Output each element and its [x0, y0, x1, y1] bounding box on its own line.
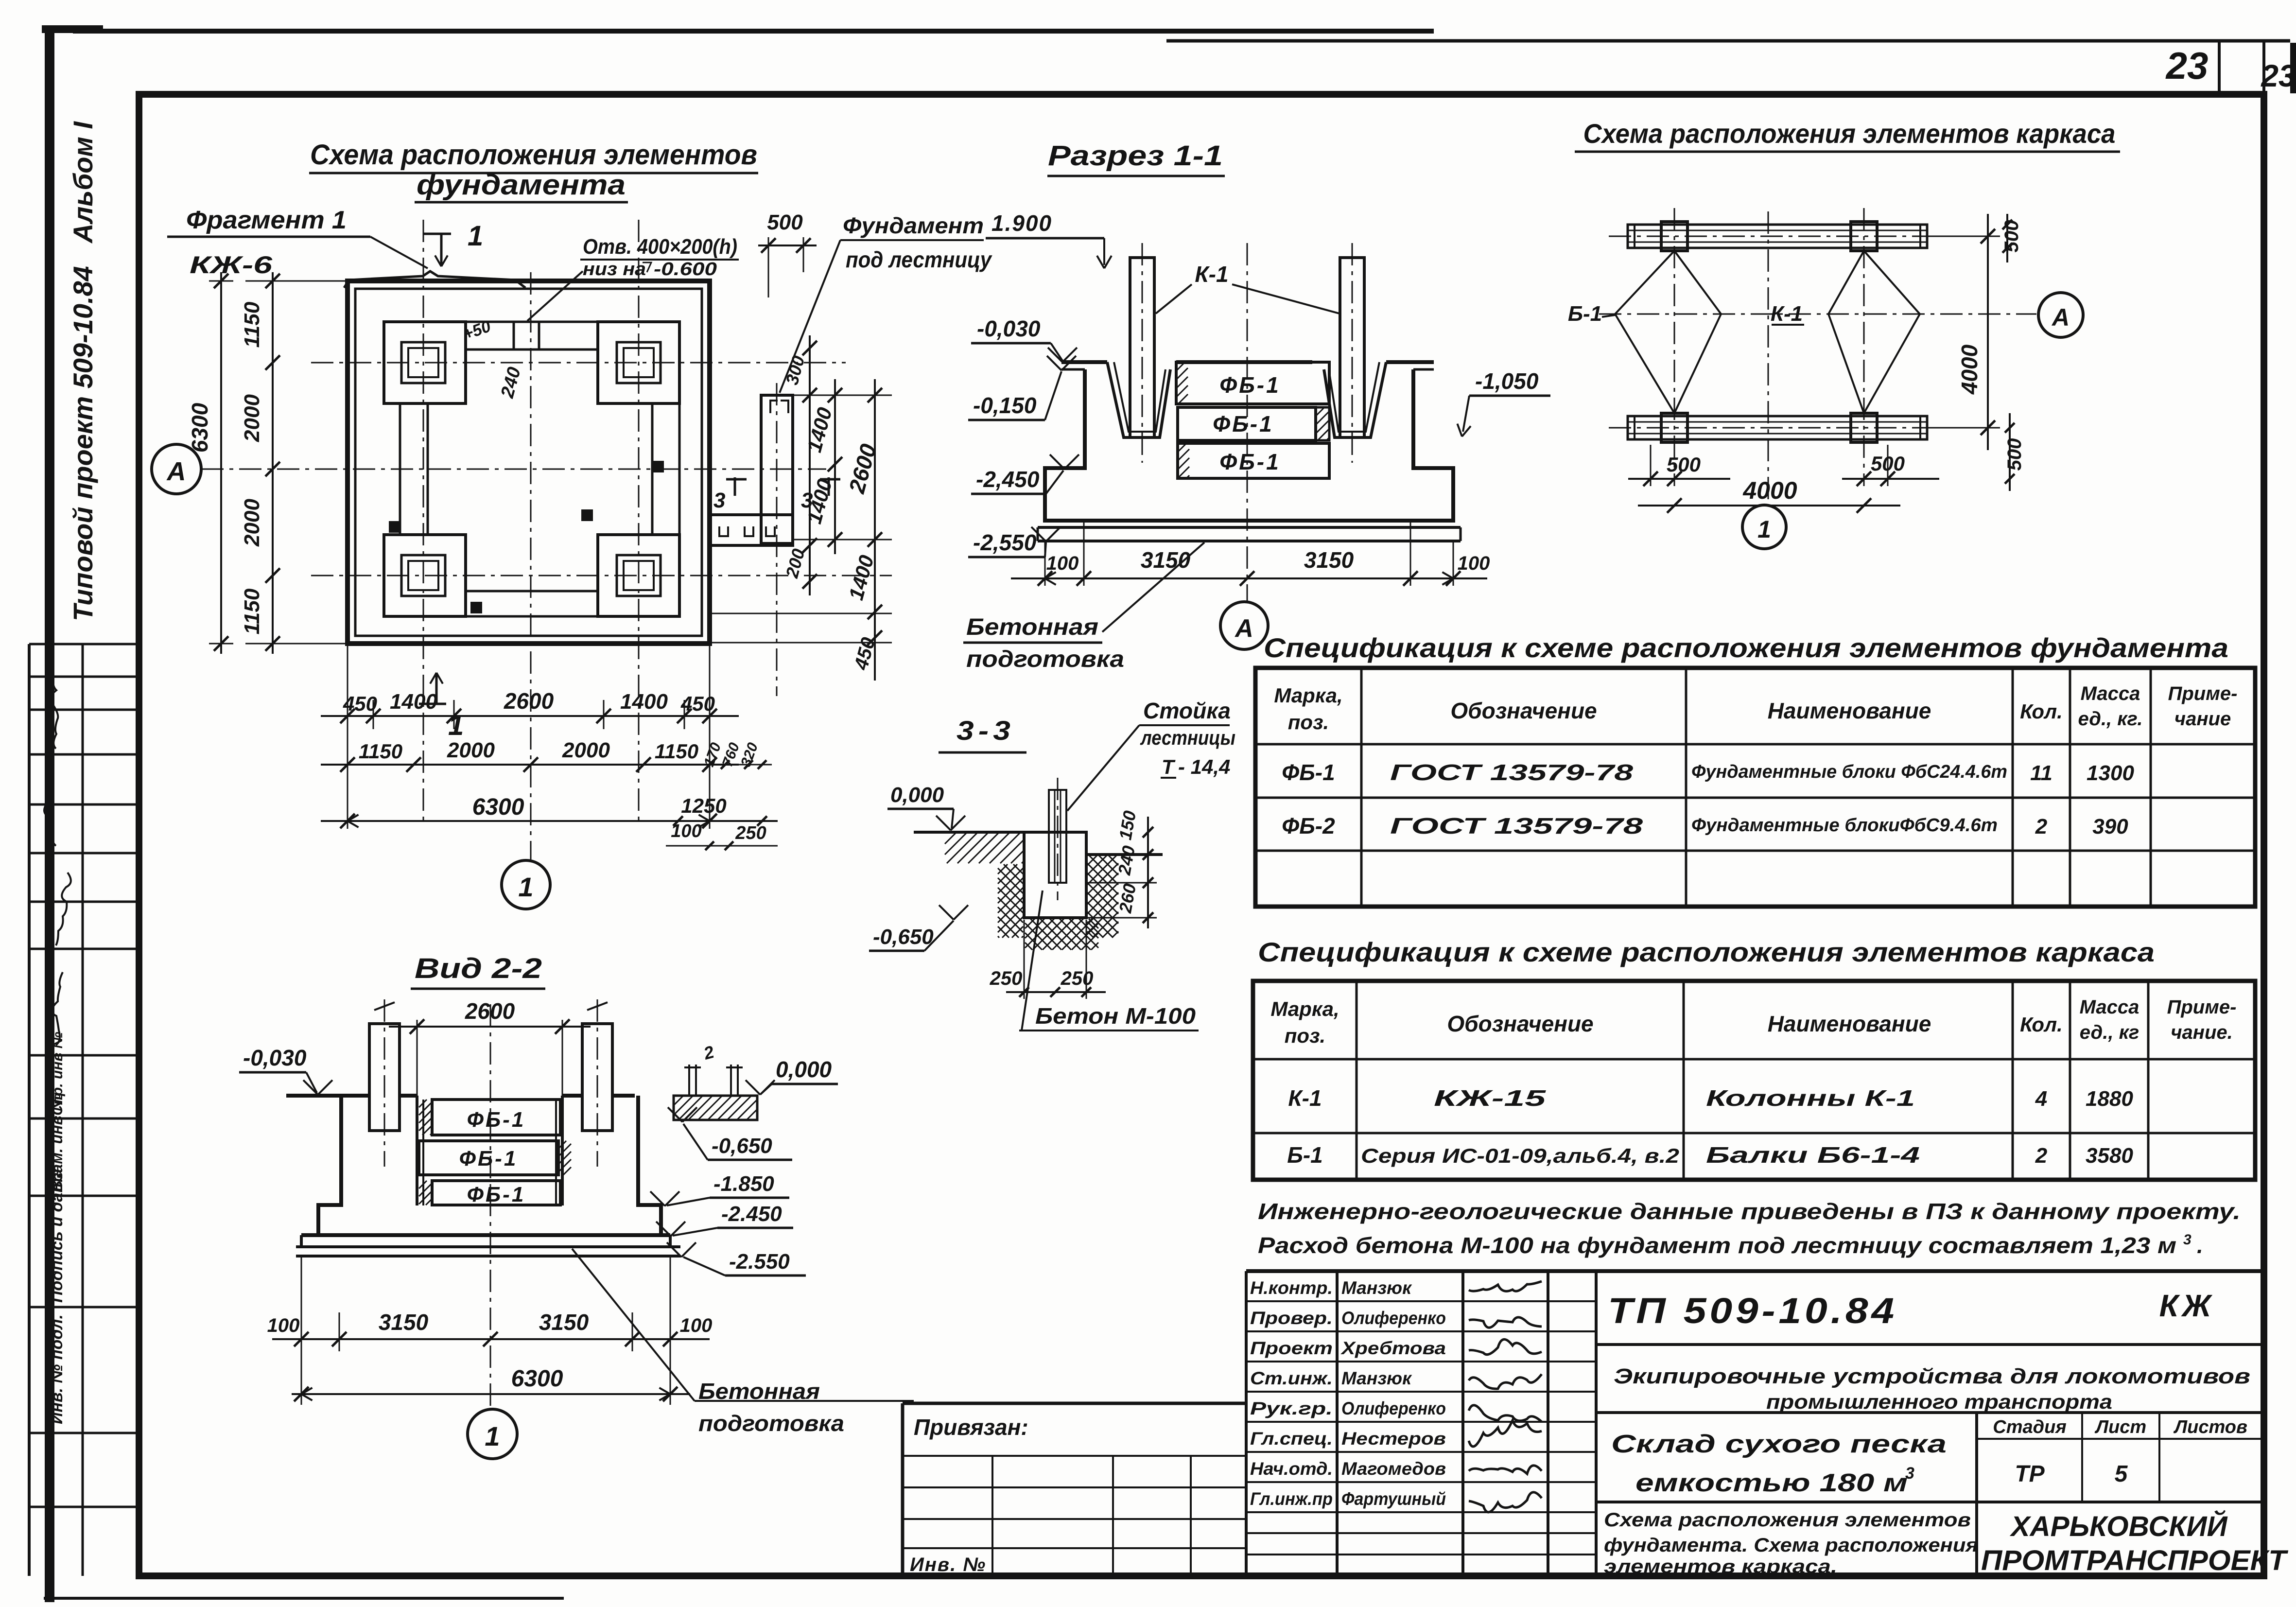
svg-text:поз.: поз. [1288, 711, 1329, 734]
svg-text:-2.450: -2.450 [721, 1202, 782, 1226]
svg-text:Кол.: Кол. [2020, 1013, 2063, 1036]
svg-text:Схема расположения элементов к: Схема расположения элементов каркаса [1583, 118, 2116, 149]
svg-text:-0,150: -0,150 [973, 393, 1037, 418]
svg-text:Альбом I: Альбом I [68, 121, 98, 244]
svg-text:Листов: Листов [2173, 1417, 2247, 1437]
svg-text:КЖ-15: КЖ-15 [1434, 1085, 1547, 1111]
svg-text:Б-1: Б-1 [1287, 1142, 1322, 1168]
svg-text:Нач.отд.: Нач.отд. [1250, 1459, 1333, 1479]
svg-text:2000: 2000 [240, 499, 264, 547]
svg-text:-2,550: -2,550 [973, 530, 1037, 555]
svg-text:2: 2 [2035, 1144, 2048, 1168]
svg-text:1: 1 [518, 872, 533, 902]
svg-text:2000: 2000 [447, 738, 495, 762]
svg-text:100: 100 [680, 1315, 713, 1336]
svg-text:ГОСТ 13579-78: ГОСТ 13579-78 [1390, 813, 1643, 838]
svg-text:1880: 1880 [2086, 1087, 2133, 1111]
svg-text:100: 100 [267, 1315, 300, 1336]
svg-text:ед., кг: ед., кг [2080, 1022, 2139, 1043]
svg-text:Марка,: Марка, [1270, 997, 1339, 1020]
svg-text:промышленного транспорта: промышленного транспорта [1766, 1390, 2112, 1413]
svg-text:чание: чание [2174, 708, 2231, 730]
svg-text:ФБ-1: ФБ-1 [1213, 411, 1273, 437]
svg-text:6300: 6300 [511, 1366, 563, 1392]
svg-text:100: 100 [671, 821, 701, 841]
svg-text:Фундаментные блокиФбС9.4.6т: Фундаментные блокиФбС9.4.6т [1691, 815, 1998, 836]
svg-text:1400: 1400 [802, 476, 836, 526]
svg-text:Проект: Проект [1250, 1338, 1333, 1358]
svg-text:ФБ-1: ФБ-1 [1219, 449, 1280, 474]
svg-text:2: 2 [2035, 815, 2048, 838]
svg-text:Т: Т [1162, 755, 1176, 778]
svg-text:100: 100 [1046, 553, 1079, 574]
svg-text:Нестеров: Нестеров [1341, 1429, 1446, 1449]
svg-text:Гл.инж.пр: Гл.инж.пр [1250, 1489, 1333, 1509]
svg-text:Наименование: Наименование [1768, 698, 1931, 723]
svg-text:Б-1: Б-1 [1568, 302, 1602, 326]
svg-text:Марка,: Марка, [1274, 684, 1342, 707]
svg-text:3-3: 3-3 [957, 715, 1015, 746]
svg-text:6300: 6300 [187, 402, 212, 453]
svg-text:Вид 2-2: Вид 2-2 [415, 953, 542, 984]
svg-text:250: 250 [990, 968, 1023, 989]
svg-text:подготовка: подготовка [966, 646, 1124, 672]
svg-text:2000: 2000 [240, 394, 264, 442]
svg-text:Олиференко: Олиференко [1341, 1308, 1446, 1328]
svg-text:Хребтова: Хребтова [1340, 1338, 1446, 1358]
svg-text:А: А [2051, 304, 2070, 331]
svg-text:лестницы: лестницы [1140, 726, 1235, 749]
svg-text:фундамента. Схема расположения: фундамента. Схема расположения [1604, 1535, 1978, 1556]
svg-text:ФБ-1: ФБ-1 [467, 1183, 526, 1206]
svg-text:1150: 1150 [655, 740, 698, 763]
svg-text:Манзюк: Манзюк [1341, 1278, 1412, 1298]
svg-text:250: 250 [735, 823, 766, 843]
svg-text:Наименование: Наименование [1768, 1011, 1931, 1036]
svg-text:Бетонная: Бетонная [966, 614, 1098, 640]
svg-text:-1.850: -1.850 [713, 1172, 774, 1196]
svg-text:1: 1 [485, 1421, 500, 1451]
svg-text:0,000: 0,000 [776, 1057, 832, 1082]
svg-text:500: 500 [1667, 453, 1701, 476]
svg-text:Склад сухого песка: Склад сухого песка [1611, 1430, 1947, 1458]
svg-text:Разрез 1-1: Разрез 1-1 [1048, 140, 1223, 172]
svg-text:23: 23 [2261, 58, 2296, 93]
svg-text:450: 450 [680, 692, 715, 715]
svg-text:150: 150 [1115, 809, 1140, 841]
svg-text:Фрагмент 1: Фрагмент 1 [186, 206, 347, 234]
svg-text:Спецификация к схеме расположе: Спецификация к схеме расположения элемен… [1258, 937, 2155, 967]
svg-text:Масса: Масса [2080, 996, 2139, 1018]
svg-text:3150: 3150 [1304, 547, 1354, 573]
svg-text:ФБ-1: ФБ-1 [1219, 372, 1280, 398]
svg-text:11: 11 [2030, 761, 2052, 785]
svg-text:2600: 2600 [504, 688, 554, 714]
svg-text:1150: 1150 [240, 301, 264, 348]
svg-text:250: 250 [1061, 968, 1094, 989]
svg-text:поз.: поз. [1285, 1024, 1325, 1047]
svg-text:-0,650: -0,650 [712, 1134, 772, 1158]
svg-text:элементов каркаса.: элементов каркаса. [1604, 1556, 1837, 1577]
svg-text:Привязан:: Привязан: [914, 1415, 1028, 1440]
svg-text:5: 5 [2115, 1461, 2128, 1487]
svg-text:1400: 1400 [802, 405, 836, 454]
svg-text:Инженерно-геологические данные: Инженерно-геологические данные приведены… [1258, 1199, 2241, 1224]
svg-text:КЖ: КЖ [2159, 1288, 2215, 1323]
svg-text:1300: 1300 [2087, 761, 2134, 785]
svg-text:Спецификация к схеме располож: Спецификация к схеме расположения элемен… [1264, 632, 2228, 663]
svg-text:23: 23 [2165, 44, 2209, 87]
svg-text:КЖ-6: КЖ-6 [190, 251, 273, 279]
svg-text:1400: 1400 [390, 690, 437, 714]
svg-text:Типовой проект 509-10.84: Типовой проект 509-10.84 [68, 266, 98, 621]
svg-text:0,000: 0,000 [890, 783, 944, 807]
svg-text:-0,650: -0,650 [873, 925, 934, 949]
svg-text:1: 1 [468, 220, 483, 252]
svg-text:3: 3 [2183, 1232, 2192, 1248]
svg-text:Масса: Масса [2081, 683, 2140, 704]
svg-text:4000: 4000 [1957, 344, 1982, 395]
svg-text:К-1: К-1 [1771, 302, 1803, 326]
svg-text:Ст.инж.: Ст.инж. [1250, 1368, 1333, 1388]
svg-text:ФБ-1: ФБ-1 [459, 1147, 518, 1170]
svg-text:ХАРЬКОВСКИЙ: ХАРЬКОВСКИЙ [2009, 1510, 2227, 1542]
svg-text:1.900: 1.900 [991, 210, 1052, 236]
svg-text:Приме-: Приме- [2168, 683, 2238, 704]
svg-text:1150: 1150 [359, 740, 402, 763]
svg-text:6300: 6300 [472, 794, 524, 820]
svg-text:3: 3 [1905, 1464, 1914, 1483]
svg-text:1: 1 [1757, 516, 1771, 543]
svg-text:Фундамент: Фундамент [843, 213, 984, 238]
svg-text:Бетон М-100: Бетон М-100 [1035, 1003, 1196, 1029]
svg-text:ГОСТ 13579-78: ГОСТ 13579-78 [1390, 760, 1634, 785]
svg-text:подготовка: подготовка [698, 1411, 844, 1436]
svg-text:ФБ-1: ФБ-1 [1282, 760, 1335, 785]
svg-text:Расход бетона М-100 на фундам: Расход бетона М-100 на фундамент под лес… [1258, 1233, 2176, 1258]
svg-text:500: 500 [2001, 220, 2022, 253]
svg-text:Схема расположения элементов: Схема расположения элементов [310, 139, 757, 171]
svg-text:Олиференко: Олиференко [1341, 1398, 1446, 1418]
svg-text:Провер.: Провер. [1250, 1308, 1333, 1328]
svg-text:Обозначение: Обозначение [1450, 698, 1597, 723]
svg-text:К-1: К-1 [1195, 262, 1228, 287]
svg-text:100: 100 [1458, 553, 1490, 574]
svg-text:Инв. №: Инв. № [910, 1554, 986, 1575]
svg-text:Магомедов: Магомедов [1341, 1459, 1446, 1479]
svg-text:3: 3 [713, 489, 725, 512]
svg-text:2000: 2000 [562, 738, 610, 762]
svg-text:-0,030: -0,030 [243, 1045, 307, 1070]
svg-text:-2,450: -2,450 [976, 467, 1040, 492]
svg-text:Схема расположения элементов: Схема расположения элементов [1604, 1509, 1971, 1531]
svg-text:фундамента: фундамента [417, 169, 626, 201]
svg-text:Приме-: Приме- [2167, 996, 2237, 1018]
svg-text:Балки Б6-1-4: Балки Б6-1-4 [1706, 1142, 1920, 1168]
svg-text:Стадия: Стадия [1993, 1417, 2066, 1437]
svg-text:1250: 1250 [681, 794, 726, 817]
svg-text:390: 390 [2092, 815, 2128, 838]
svg-text:1400: 1400 [844, 553, 878, 602]
svg-text:1150: 1150 [240, 588, 264, 634]
svg-text:А: А [166, 457, 186, 486]
svg-text:500: 500 [2004, 438, 2025, 471]
svg-text:Рук.гр.: Рук.гр. [1250, 1398, 1333, 1418]
svg-text:240: 240 [1114, 844, 1139, 877]
svg-text:Манзюк: Манзюк [1341, 1368, 1412, 1388]
svg-text:-1,050: -1,050 [1475, 368, 1539, 394]
svg-text:Кол.: Кол. [2020, 700, 2063, 723]
svg-text:240: 240 [497, 365, 525, 401]
svg-text:300: 300 [782, 353, 808, 387]
svg-text:Фартушный: Фартушный [1341, 1489, 1446, 1509]
svg-text:- 14,4: - 14,4 [1178, 755, 1230, 778]
svg-text:.: . [2197, 1233, 2203, 1258]
svg-text:3150: 3150 [539, 1310, 589, 1335]
svg-text:3580: 3580 [2086, 1144, 2133, 1168]
svg-text:Отв. 400×200(h): Отв. 400×200(h) [583, 235, 737, 259]
svg-text:-2.550: -2.550 [729, 1250, 790, 1274]
svg-text:Серия ИС-01-09,альб.4, в.2: Серия ИС-01-09,альб.4, в.2 [1361, 1144, 1679, 1167]
svg-text:Инв. № подл.: Инв. № подл. [48, 1314, 66, 1424]
svg-text:500: 500 [1871, 452, 1905, 475]
svg-text:-0.600: -0.600 [654, 259, 717, 279]
svg-text:450: 450 [343, 692, 377, 715]
svg-text:Гл.спец.: Гл.спец. [1250, 1429, 1333, 1449]
svg-text:ФБ-2: ФБ-2 [1282, 813, 1335, 838]
svg-text:А: А [1234, 614, 1253, 643]
svg-text:Н.контр.: Н.контр. [1250, 1278, 1333, 1298]
svg-text:-0,030: -0,030 [977, 316, 1041, 341]
svg-text:ТП 509-10.84: ТП 509-10.84 [1608, 1291, 1897, 1331]
svg-text:ед., кг.: ед., кг. [2078, 708, 2142, 730]
svg-text:ПРОМТРАНСПРОЕКТ: ПРОМТРАНСПРОЕКТ [1981, 1545, 2289, 1576]
svg-text:Колонны К-1: Колонны К-1 [1706, 1085, 1915, 1111]
svg-text:2: 2 [701, 1042, 716, 1064]
svg-text:К-1: К-1 [1288, 1085, 1322, 1111]
svg-text:емкостью 180 м: емкостью 180 м [1635, 1469, 1908, 1497]
svg-text:Экипировочные устройства для л: Экипировочные устройства для локомотивов [1614, 1364, 2250, 1388]
svg-text:260: 260 [1115, 882, 1140, 915]
svg-text:ФБ-1: ФБ-1 [467, 1108, 526, 1132]
svg-text:Лист: Лист [2094, 1417, 2146, 1437]
svg-text:под лестницу: под лестницу [846, 247, 992, 272]
svg-text:чание.: чание. [2171, 1022, 2233, 1043]
svg-text:Стойка: Стойка [1143, 698, 1231, 723]
svg-text:1400: 1400 [620, 690, 668, 714]
svg-text:4: 4 [2035, 1087, 2047, 1111]
svg-text:500: 500 [767, 210, 803, 234]
svg-text:4000: 4000 [1742, 477, 1797, 504]
svg-text:Фундаментные блоки ФбС24.4.6т: Фундаментные блоки ФбС24.4.6т [1691, 762, 2007, 782]
svg-text:ТР: ТР [2015, 1461, 2045, 1487]
svg-text:3150: 3150 [379, 1310, 429, 1335]
svg-text:Обозначение: Обозначение [1447, 1011, 1593, 1036]
svg-text:низ на: низ на [583, 259, 646, 279]
